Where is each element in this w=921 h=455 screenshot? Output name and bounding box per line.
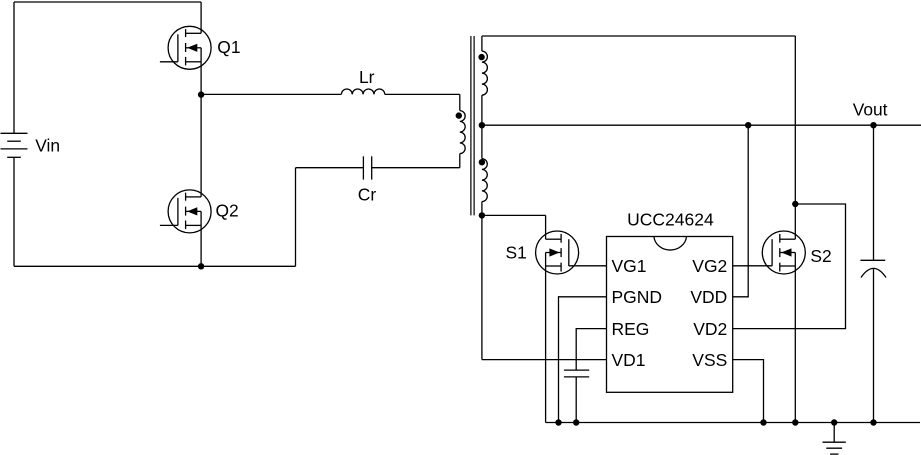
wire left vertical lower (13, 157, 15, 266)
wire S2 drain drop (794, 36, 796, 204)
wire S1 drain (545, 215, 547, 239)
wire VSS (733, 360, 764, 423)
node Cout ground junction (870, 419, 876, 425)
wire Vout rail (482, 124, 921, 126)
op-amp U1 UCC24624 outline (607, 237, 733, 393)
wire bottom terminal to S1 drain (482, 214, 546, 216)
wire VD1 horizontal (482, 359, 607, 361)
wire Lr to transformer (385, 93, 460, 95)
node VSS ground junction (760, 419, 766, 425)
wire Cr left (296, 167, 364, 169)
node VDD Vout junction (745, 122, 751, 128)
wire REG cap to ground (575, 377, 577, 423)
wire switch node to Lr (201, 93, 341, 95)
wire primary top lead (459, 94, 461, 110)
wire secondary ground rail (546, 422, 920, 424)
svg-text:REG: REG (612, 319, 650, 339)
wire primary bottom lead (459, 154, 461, 168)
wire secondary top lead (481, 36, 483, 51)
wire Cr return riser (295, 168, 297, 267)
capacitor Cout (860, 259, 885, 261)
svg-text:Vin: Vin (35, 136, 60, 156)
svg-text:Lr: Lr (359, 67, 375, 87)
wire top rail (14, 1, 201, 3)
node S2 drain junction (792, 201, 798, 207)
svg-text:Vout: Vout (853, 100, 888, 120)
wire REG (576, 329, 606, 371)
transformer secondary top phase dot (478, 54, 484, 60)
svg-text:VD1: VD1 (612, 350, 646, 370)
wire S1 gate to VG1 (569, 265, 607, 267)
transistor Q1 (168, 26, 211, 69)
wire secondary to center tap (481, 95, 483, 125)
node Cout Vout junction (870, 122, 876, 128)
svg-text:VG2: VG2 (692, 256, 727, 276)
svg-text:UCC24624: UCC24624 (627, 209, 714, 229)
node switch node (198, 91, 204, 97)
transformer secondary bottom phase dot (479, 159, 485, 165)
wire VD2 link (733, 204, 846, 329)
node secondary bottom terminal (479, 212, 485, 218)
wire S1 source down (545, 253, 547, 423)
transformer secondary bottom winding (482, 159, 487, 202)
wire VD1 drop (481, 215, 483, 359)
svg-text:VDD: VDD (690, 287, 727, 307)
wire secondary bottom lead (481, 202, 483, 216)
svg-text:Cr: Cr (358, 185, 377, 205)
wire left vertical upper (13, 2, 15, 133)
wire Cr right (372, 167, 460, 169)
svg-text:S2: S2 (810, 246, 831, 266)
capacitor Cr (362, 156, 364, 179)
transformer core (470, 36, 472, 215)
wire Q1 gate stub (160, 61, 178, 63)
transformer secondary top winding (482, 51, 488, 95)
node center tap (479, 122, 485, 128)
wire Q2 gate stub (160, 224, 178, 226)
svg-text:PGND: PGND (612, 287, 663, 307)
node Q2 source junction (198, 263, 204, 269)
svg-text:Q2: Q2 (216, 201, 239, 221)
wire Q2 drain (200, 95, 202, 197)
transistor S1 (536, 231, 579, 274)
node S2 source ground junction (792, 419, 798, 425)
transistor S2 (762, 231, 805, 274)
wire VG2 to S2 gate (733, 265, 772, 267)
node PGND ground junction (555, 419, 561, 425)
svg-text:VSS: VSS (692, 350, 727, 370)
wire PGND (559, 297, 607, 423)
svg-text:Q1: Q1 (217, 37, 240, 57)
inductor Lr (341, 89, 384, 94)
node REG cap ground junction (573, 419, 579, 425)
wire Q1 drain (200, 2, 202, 33)
transistor Q2 (168, 190, 211, 233)
svg-text:VD2: VD2 (693, 319, 727, 339)
transformer primary phase dot (456, 112, 462, 118)
svg-text:S1: S1 (506, 242, 527, 262)
svg-text:VG1: VG1 (612, 256, 647, 276)
wire secondary top rail (482, 35, 795, 37)
wire Cout top lead (873, 125, 875, 260)
capacitor REG bypass (564, 369, 589, 371)
battery Vin (1, 132, 28, 134)
wire VDD (733, 125, 749, 297)
wire bottom-left rail (14, 265, 296, 267)
transformer primary winding (460, 111, 465, 154)
ground (831, 419, 837, 425)
wire S2 source down (794, 253, 796, 423)
wire center tap to bottom winding (481, 125, 483, 158)
wire Q1 source to switch node (200, 48, 202, 95)
wire Cout bottom lead (873, 268, 875, 422)
wire S2 drain (794, 204, 796, 239)
wire Q2 source (200, 211, 202, 266)
